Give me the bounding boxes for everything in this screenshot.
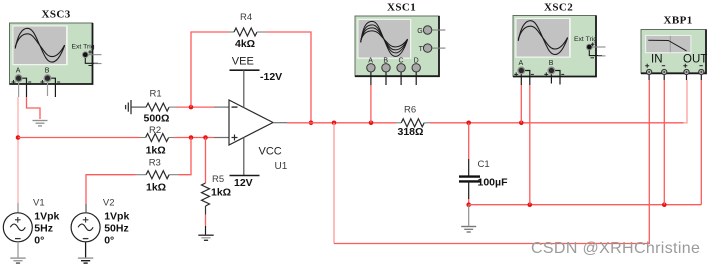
- svg-text:1kΩ: 1kΩ: [146, 144, 166, 156]
- resistor R6: [396, 119, 430, 127]
- label XSC1: [387, 2, 416, 14]
- capacitor C1: [459, 177, 480, 182]
- svg-text:1kΩ: 1kΩ: [211, 187, 231, 199]
- XBP1 pin OUT-: [699, 66, 704, 80]
- wire C1 node to ground: [468, 205, 470, 226]
- XSC1 channel C pin: [397, 57, 405, 85]
- wire low-side bus (C1 node to XBP1 OUT-): [469, 204, 702, 206]
- svg-text:500Ω: 500Ω: [144, 113, 170, 125]
- svg-text:4kΩ: 4kΩ: [235, 38, 255, 50]
- svg-text:Ext Trig: Ext Trig: [72, 44, 95, 51]
- XSC2 channel B pin: [544, 60, 564, 85]
- wire bus down-branch to bottom run: [333, 123, 335, 244]
- svg-text:Ext Trig: Ext Trig: [574, 36, 597, 43]
- ground (rotated, at R1 input): [126, 100, 147, 114]
- XSC1 channel B pin: [382, 57, 390, 85]
- wire output bus (op-amp to R6): [287, 122, 396, 124]
- label C1: [478, 159, 509, 189]
- node R1/R4 junction: [189, 105, 194, 110]
- wire bottom run to XBP1 IN+: [334, 80, 649, 244]
- XSC3 screen: [12, 25, 68, 65]
- node V1/R2 junction: [16, 135, 21, 140]
- XSC1 waveform: [361, 21, 408, 56]
- label U1: [275, 161, 288, 172]
- node XBP1 IN- junction: [662, 202, 667, 207]
- resistor R3: [136, 171, 179, 179]
- node bus/XSC1-A junction: [369, 121, 374, 126]
- wire C1 to bottom node: [468, 183, 470, 205]
- svg-text:A: A: [519, 60, 524, 67]
- XSC2 channel A pin: [514, 60, 534, 85]
- svg-text:U1: U1: [275, 161, 288, 172]
- XBP1 screen: [645, 35, 691, 53]
- svg-text:CSDN @XRHChristine: CSDN @XRHChristine: [531, 240, 700, 257]
- XBP1 IN label: [651, 54, 663, 66]
- voltage source V2: [71, 213, 100, 242]
- label XBP1: [664, 15, 693, 27]
- svg-text:12V: 12V: [234, 177, 253, 189]
- svg-text:1Vpk: 1Vpk: [34, 211, 59, 223]
- XSC1 channel D pin: [412, 57, 420, 85]
- node XSC2 A+ junction: [519, 121, 524, 126]
- node C1 bottom junction: [466, 202, 471, 207]
- XSC1 screen: [357, 19, 411, 59]
- svg-text:T: T: [419, 46, 424, 53]
- resistor R1: [146, 103, 176, 111]
- svg-text:OUT: OUT: [683, 54, 707, 66]
- XSC3 Ext Trig pin: [72, 44, 102, 66]
- oscilloscope XSC3: [10, 23, 93, 84]
- svg-text:G: G: [417, 28, 422, 35]
- svg-text:C1: C1: [478, 159, 490, 170]
- svg-text:0°: 0°: [104, 235, 114, 247]
- svg-text:R5: R5: [212, 174, 224, 185]
- wire XBP1 OUT- down: [700, 80, 702, 205]
- label R2: [146, 125, 166, 156]
- wire XBP1 OUT+ down (pale): [684, 80, 688, 123]
- svg-text:1kΩ: 1kΩ: [146, 182, 166, 194]
- XSC1 pin T: [419, 44, 446, 53]
- svg-text:XSC2: XSC2: [544, 2, 573, 14]
- wire XSC1 A to bus: [370, 85, 372, 123]
- svg-text:V2: V2: [103, 197, 115, 208]
- wire bus to C1: [468, 123, 470, 176]
- node op-amp output junction: [309, 121, 314, 126]
- svg-text:A: A: [16, 68, 21, 75]
- XBP1 OUT label: [683, 54, 707, 66]
- svg-text:R4: R4: [240, 12, 252, 23]
- wire filtered output bus (R6 to XBP1 OUT+): [430, 122, 684, 124]
- wire V2 to R3: [86, 175, 136, 213]
- XBP1 response curve: [648, 36, 686, 52]
- ground (V2): [78, 242, 93, 263]
- svg-text:XBP1: XBP1: [664, 15, 693, 27]
- op-amp U1: [214, 100, 287, 145]
- svg-text:VCC: VCC: [259, 146, 282, 158]
- XSC3 channel B pin: [40, 68, 60, 97]
- XSC3 channel A pin: [12, 68, 32, 97]
- XSC2 waveform: [518, 21, 567, 55]
- wire XBP1 IN- down: [663, 80, 665, 205]
- node R2/R5 junction: [203, 135, 208, 140]
- wire R2 node to R5: [205, 138, 207, 184]
- power VEE supply: [230, 56, 283, 108]
- svg-text:100µF: 100µF: [478, 177, 509, 189]
- bode plotter XBP1: [641, 30, 706, 74]
- svg-text:B: B: [549, 60, 554, 67]
- svg-text:1Vpk: 1Vpk: [104, 211, 129, 223]
- XSC3 waveform: [15, 28, 64, 62]
- svg-text:50Hz: 50Hz: [104, 223, 129, 235]
- label R3: [146, 158, 166, 194]
- wire R1 to op-amp inverting input: [177, 106, 215, 108]
- label R4: [235, 12, 255, 50]
- XSC2 Ext Trig pin: [574, 36, 606, 58]
- resistor R5: [202, 183, 210, 215]
- ground (R5): [198, 235, 213, 240]
- label XSC3: [42, 9, 71, 21]
- node XSC2 A- junction: [528, 202, 533, 207]
- svg-text:XSC3: XSC3: [42, 9, 71, 21]
- voltage source V1: [3, 213, 32, 242]
- svg-text:R1: R1: [150, 89, 162, 100]
- svg-text:VEE: VEE: [232, 56, 254, 68]
- svg-text:0°: 0°: [34, 235, 44, 247]
- wire XSC2 A+ to bus: [520, 85, 522, 123]
- svg-text:R6: R6: [404, 104, 416, 115]
- svg-text:V1: V1: [33, 197, 45, 208]
- label R5: [211, 174, 231, 199]
- XSC1 channel A pin: [367, 57, 375, 85]
- oscilloscope XSC2: [513, 16, 596, 77]
- oscilloscope XSC1 (4-channel): [355, 16, 439, 76]
- ground (XSC3 A-): [33, 121, 48, 126]
- node bus/bottom-branch junction: [332, 121, 337, 126]
- XBP1 pin IN+: [645, 64, 652, 80]
- node R2/R3 junction: [189, 135, 194, 140]
- resistor R2: [140, 134, 174, 142]
- svg-text:R3: R3: [149, 158, 161, 169]
- XBP1 pin IN-: [662, 66, 667, 80]
- watermark: [531, 240, 700, 257]
- wire XSC3 A- to ground: [27, 97, 41, 119]
- wire R5 to ground: [205, 215, 207, 235]
- label XSC2: [544, 2, 573, 14]
- XSC2 screen: [515, 18, 571, 58]
- ground (C1): [461, 227, 476, 233]
- wire R4 feedback loop right: [266, 32, 312, 123]
- svg-text:IN: IN: [651, 54, 663, 66]
- wire R4 feedback loop left: [191, 32, 229, 107]
- wire R3 to R2 node: [178, 138, 191, 175]
- svg-text:318Ω: 318Ω: [398, 126, 424, 138]
- svg-text:R2: R2: [149, 125, 161, 136]
- svg-text:-12V: -12V: [260, 71, 282, 83]
- wire V1 node to R2: [18, 137, 140, 139]
- label R6: [398, 104, 424, 137]
- label V1: [33, 197, 60, 246]
- label V2: [103, 197, 130, 246]
- ground (V1): [10, 242, 25, 263]
- svg-text:B: B: [45, 68, 50, 75]
- resistor R4: [229, 28, 266, 36]
- node C1 top junction: [466, 121, 471, 126]
- XSC1 pin G: [417, 26, 445, 35]
- wire V1 to XSC3 A: [17, 97, 19, 213]
- wire XSC2 A- to low-side bus: [529, 85, 531, 205]
- svg-text:5Hz: 5Hz: [34, 223, 53, 235]
- svg-text:XSC1: XSC1: [387, 2, 416, 14]
- label R1: [144, 89, 170, 125]
- wire R2 to op-amp noninverting input: [174, 137, 214, 139]
- power VCC supply: [230, 137, 282, 189]
- XBP1 pin OUT+: [683, 64, 689, 80]
